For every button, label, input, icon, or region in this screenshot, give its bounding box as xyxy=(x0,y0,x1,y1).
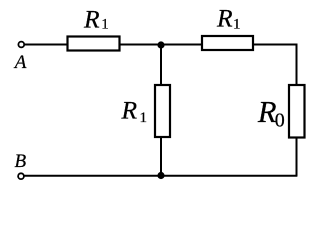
wire vertical R1 to bottom node xyxy=(160,137,162,176)
svg-text:1: 1 xyxy=(233,16,241,32)
svg-text:0: 0 xyxy=(275,110,285,132)
svg-text:A: A xyxy=(13,52,27,73)
node (bottom junction) xyxy=(157,172,164,179)
svg-text:R: R xyxy=(121,95,138,124)
wire R1 right to corner down to R0 xyxy=(253,45,297,86)
wire R1 left to node xyxy=(121,44,203,46)
wire R0 to bottom xyxy=(296,138,298,177)
resistor R1 (top right horizontal) xyxy=(202,36,253,50)
wire bottom B to right corner xyxy=(24,175,297,177)
terminal B xyxy=(18,173,24,179)
resistor R1 (vertical middle) xyxy=(155,85,170,137)
resistor R1 (left horizontal) xyxy=(68,37,120,51)
svg-text:B: B xyxy=(15,151,27,172)
node (top junction) xyxy=(157,41,164,48)
svg-text:R: R xyxy=(83,5,100,34)
wire A to R1 left xyxy=(25,44,67,46)
svg-text:1: 1 xyxy=(140,110,148,126)
wire node down to vertical R1 xyxy=(160,45,162,85)
svg-text:R: R xyxy=(216,4,233,33)
terminal A xyxy=(18,42,24,48)
svg-text:1: 1 xyxy=(101,17,109,33)
resistor R0 xyxy=(289,85,305,138)
